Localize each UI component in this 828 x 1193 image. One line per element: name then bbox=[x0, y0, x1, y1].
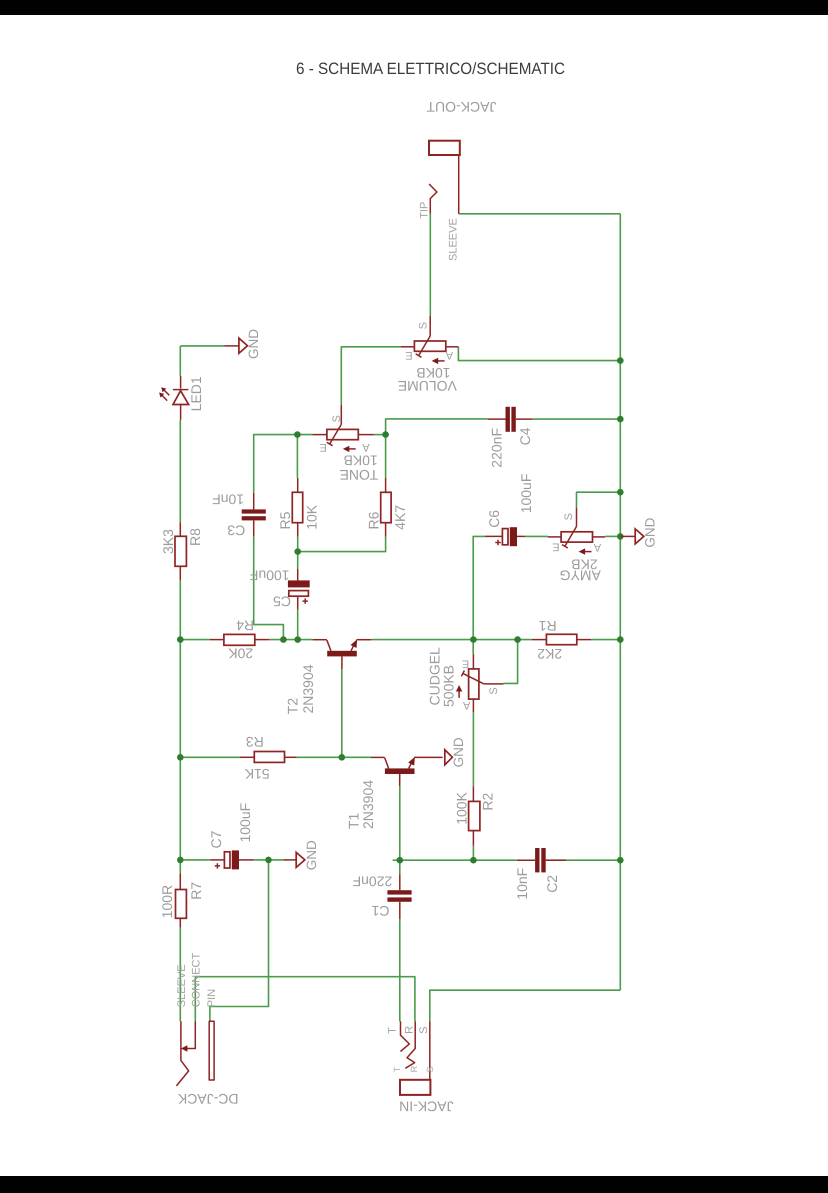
wire T1 base down bbox=[399, 786, 401, 860]
wire R4 right to T2 collector bbox=[269, 639, 312, 641]
wire R5 bottom to C5 top bbox=[297, 537, 299, 569]
junction TONE A node bbox=[382, 431, 389, 438]
ground GND at AMYG A rail bbox=[620, 517, 657, 547]
junction rail at bottom row bbox=[617, 857, 624, 864]
wire C5 bottom to base node bbox=[297, 610, 299, 640]
junction R2 node bbox=[470, 857, 477, 864]
junction C5 at base row bbox=[294, 636, 301, 643]
svg-text:C4: C4 bbox=[517, 427, 533, 445]
svg-text:R3: R3 bbox=[246, 734, 264, 750]
junction CUDGEL S node bbox=[514, 636, 521, 643]
svg-text:6 - SCHEMA ELETTRICO/SCHEMATIC: 6 - SCHEMA ELETTRICO/SCHEMATIC bbox=[296, 60, 565, 78]
svg-text:100K: 100K bbox=[453, 791, 469, 824]
junction rail at VOLUME A bbox=[617, 357, 624, 364]
svg-text:R5: R5 bbox=[277, 511, 293, 529]
svg-text:A: A bbox=[593, 541, 601, 553]
svg-text:S: S bbox=[563, 513, 575, 520]
capacitor C4 220nF bbox=[488, 407, 533, 468]
svg-text:10K: 10K bbox=[304, 504, 320, 530]
wire TONE E to C3 top bbox=[254, 435, 313, 493]
svg-text:R1: R1 bbox=[539, 618, 557, 634]
resistor R6 4K7 bbox=[365, 478, 408, 537]
wire R8 to R3 row bbox=[179, 580, 181, 757]
junction left rail R3 bbox=[177, 754, 184, 761]
junction TONE E node bbox=[294, 431, 301, 438]
svg-text:JACK-OUT: JACK-OUT bbox=[426, 99, 496, 115]
resistor R7 100R bbox=[159, 873, 204, 927]
wire LED1 to R8 bbox=[179, 420, 181, 523]
junction C1 node bbox=[397, 857, 404, 864]
potentiometer VOLUME 10KB bbox=[398, 316, 459, 395]
wire TIP of JACK-OUT to VOLUME S bbox=[429, 214, 431, 316]
ground GND at T1 emitter bbox=[445, 737, 466, 767]
wire VOLUME E to TONE S bbox=[341, 347, 401, 405]
svg-text:S: S bbox=[331, 415, 343, 422]
wire R1 right to rail bbox=[591, 639, 620, 641]
junction T2 base at R3 row bbox=[339, 754, 346, 761]
svg-text:JACK-IN: JACK-IN bbox=[399, 1098, 453, 1114]
transistor T1 2N3904 bbox=[345, 757, 442, 829]
svg-text:TIP: TIP bbox=[419, 202, 431, 219]
svg-text:3K3: 3K3 bbox=[160, 529, 176, 554]
svg-text:CONNECT: CONNECT bbox=[191, 953, 203, 1008]
svg-text:R6: R6 bbox=[365, 511, 381, 529]
transistor T2 2N3904 bbox=[284, 639, 371, 714]
wire CUDGEL S riser bbox=[503, 640, 517, 684]
svg-text:S: S bbox=[418, 1027, 430, 1034]
ground GND near LED1 bbox=[225, 329, 262, 359]
svg-text:4K7: 4K7 bbox=[392, 505, 408, 530]
top black bar bbox=[0, 0, 828, 15]
connector JACK-IN bbox=[386, 1021, 453, 1114]
capacitor C1 220nF bbox=[353, 874, 412, 920]
resistor R4 20K bbox=[210, 617, 269, 661]
svg-text:E: E bbox=[320, 441, 327, 453]
wire R3 right to T1 collector bbox=[297, 756, 371, 758]
connector DC-JACK bbox=[176, 953, 239, 1108]
wire R5/R6 bottom join bbox=[298, 537, 386, 552]
svg-text:51K: 51K bbox=[244, 766, 270, 782]
svg-text:220nF: 220nF bbox=[353, 874, 393, 890]
ground GND near C7 bbox=[283, 840, 319, 870]
wire CUDGEL A to R2 top bbox=[472, 712, 474, 786]
wire C1 top bbox=[399, 860, 401, 874]
svg-text:GND: GND bbox=[246, 329, 261, 359]
junction CUDGEL E node bbox=[470, 636, 477, 643]
svg-text:C6: C6 bbox=[486, 510, 502, 528]
svg-text:E: E bbox=[405, 349, 412, 361]
svg-text:C7: C7 bbox=[208, 830, 224, 848]
resistor R1 2K2 bbox=[532, 618, 591, 662]
svg-text:R4: R4 bbox=[236, 617, 254, 633]
wire R2 bottom to bottom row bbox=[472, 846, 474, 861]
svg-text:10nF: 10nF bbox=[212, 492, 244, 508]
junction rail at AMYG A bbox=[617, 533, 624, 540]
svg-text:100uF: 100uF bbox=[518, 474, 534, 514]
svg-text:AMYG: AMYG bbox=[560, 567, 601, 583]
capacitor C2 10nF bbox=[514, 848, 566, 900]
junction C3 route at base row bbox=[280, 636, 287, 643]
svg-text:A: A bbox=[462, 699, 470, 711]
capacitor C5 100uF polarized bbox=[250, 568, 310, 610]
svg-text:100uF: 100uF bbox=[250, 568, 290, 584]
potentiometer TONE 10KB bbox=[312, 405, 378, 483]
wire node down to R6 top bbox=[385, 435, 387, 478]
resistor R5 10K bbox=[277, 478, 320, 537]
wire VOLUME A to rail bbox=[458, 347, 620, 361]
svg-text:PIN: PIN bbox=[206, 989, 218, 1007]
wire DC-JACK CONNECT to JACK-IN R bbox=[195, 977, 415, 1022]
svg-text:E: E bbox=[462, 658, 469, 670]
svg-text:A: A bbox=[362, 441, 370, 453]
wire C6 left to CUDGEL E node bbox=[473, 536, 485, 654]
svg-text:T1: T1 bbox=[345, 812, 361, 829]
capacitor C3 10nF bbox=[212, 492, 266, 539]
wire C2 right to rail bbox=[546, 859, 620, 861]
svg-text:R7: R7 bbox=[188, 882, 204, 900]
wire left node to R4 bbox=[180, 639, 210, 641]
wire left rail R3 row to bottom row bbox=[179, 757, 181, 860]
svg-text:VOLUME: VOLUME bbox=[398, 378, 457, 394]
svg-text:C2: C2 bbox=[544, 875, 560, 893]
svg-text:A: A bbox=[445, 349, 453, 361]
capacitor C6 100uF polarized bbox=[485, 474, 534, 547]
wire bottom row node to R7 top bbox=[179, 860, 181, 873]
svg-text:2K2: 2K2 bbox=[537, 646, 562, 662]
svg-text:R2: R2 bbox=[480, 792, 496, 810]
wire node to R5 top bbox=[296, 435, 298, 478]
wire DC-JACK CONNECT drop bbox=[194, 977, 196, 1022]
svg-text:R: R bbox=[409, 1065, 419, 1072]
junction left rail mid bbox=[177, 636, 184, 643]
wire C4 right to rail bbox=[533, 418, 621, 420]
wire T2 emitter to R1 left bbox=[371, 639, 532, 641]
svg-text:GND: GND bbox=[642, 517, 657, 547]
svg-text:E: E bbox=[552, 540, 559, 552]
svg-text:C3: C3 bbox=[227, 523, 245, 539]
svg-text:100R: 100R bbox=[159, 885, 175, 918]
svg-text:SLEEVE: SLEEVE bbox=[176, 964, 188, 1007]
svg-text:S: S bbox=[425, 1066, 435, 1072]
wire C1 bottom to JACK-IN T bbox=[399, 919, 401, 1021]
wire T2 base down bbox=[341, 669, 343, 757]
svg-text:2N3904: 2N3904 bbox=[300, 664, 316, 713]
svg-text:T2: T2 bbox=[284, 698, 300, 715]
wire TONE A node bbox=[374, 434, 386, 436]
wire left rail top GND branch bbox=[180, 345, 224, 347]
wire stub left of C1 node bbox=[393, 859, 400, 861]
svg-text:10nF: 10nF bbox=[514, 868, 530, 900]
svg-text:2N3904: 2N3904 bbox=[360, 780, 376, 829]
svg-text:GND: GND bbox=[304, 840, 319, 870]
capacitor C7 100uF polarized bbox=[208, 803, 254, 870]
svg-text:T: T bbox=[386, 1027, 398, 1034]
junction DC-JACK PIN node bbox=[265, 857, 272, 864]
svg-text:220nF: 220nF bbox=[489, 428, 505, 468]
wire C1 node to C2 left bbox=[400, 859, 517, 861]
wire node down to DC-JACK PIN bbox=[210, 860, 269, 1021]
junction rail at AMYG S bbox=[617, 489, 624, 496]
junction rail at R1 bbox=[617, 636, 624, 643]
svg-text:LED1: LED1 bbox=[188, 376, 204, 411]
diode LED1 bbox=[159, 376, 204, 420]
svg-text:R8: R8 bbox=[187, 528, 203, 546]
wire AMYG S to rail bbox=[577, 492, 621, 507]
wire C3 bottom route to base node bbox=[254, 537, 284, 640]
potentiometer AMYG 2KB bbox=[548, 508, 606, 584]
svg-text:C1: C1 bbox=[371, 903, 389, 919]
wire right rail vertical bbox=[619, 214, 621, 990]
svg-text:TONE: TONE bbox=[339, 467, 378, 483]
wire left rail to LED1 bbox=[179, 346, 181, 376]
junction R5 bottom node bbox=[294, 548, 301, 555]
svg-text:GND: GND bbox=[451, 737, 466, 767]
svg-text:100uF: 100uF bbox=[237, 803, 253, 843]
svg-text:T: T bbox=[392, 1066, 402, 1072]
wire C7 right to GND stub bbox=[254, 859, 284, 861]
svg-text:C5: C5 bbox=[273, 593, 291, 609]
wire node up to C4 left bbox=[386, 419, 488, 435]
wire SLEEVE of JACK-OUT to right rail bbox=[459, 213, 621, 215]
svg-text:R: R bbox=[403, 1026, 415, 1034]
wire C6 right to AMYG E bbox=[525, 535, 548, 537]
resistor R2 100K bbox=[453, 786, 495, 845]
svg-text:S: S bbox=[488, 687, 500, 694]
wire AMYG A to rail bbox=[605, 535, 620, 537]
svg-text:20K: 20K bbox=[228, 645, 254, 661]
resistor R8 3K3 bbox=[160, 522, 203, 580]
bottom black bar bbox=[0, 1176, 828, 1193]
svg-text:10KB: 10KB bbox=[343, 453, 377, 469]
connector JACK-OUT bbox=[419, 99, 497, 261]
svg-text:DC-JACK: DC-JACK bbox=[177, 1091, 238, 1107]
svg-text:500KB: 500KB bbox=[440, 665, 456, 707]
wire bottom rail to JACK-IN S bbox=[430, 990, 621, 1021]
wire R3 left bbox=[180, 756, 239, 758]
wire bottom row left to C7 bbox=[180, 859, 210, 861]
wire R7 bottom to DC-JACK SLEEVE bbox=[179, 928, 181, 1022]
svg-text:S: S bbox=[418, 322, 430, 329]
svg-text:SLEEVE: SLEEVE bbox=[448, 218, 460, 261]
junction left rail bottom row bbox=[177, 857, 184, 864]
potentiometer CUDGEL 500KB bbox=[427, 647, 504, 712]
junction rail at C4 bbox=[617, 416, 624, 423]
resistor R3 51K bbox=[240, 734, 297, 782]
